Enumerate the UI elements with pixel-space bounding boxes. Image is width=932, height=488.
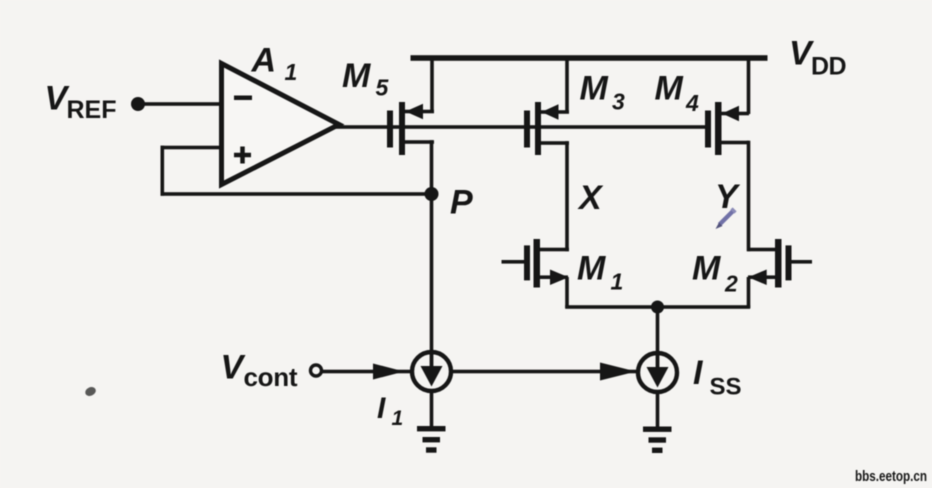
svg-text:X: X	[577, 179, 604, 217]
svg-text:M: M	[655, 70, 684, 108]
svg-text:REF: REF	[67, 96, 117, 124]
transistor Q M2 nmos	[747, 239, 812, 308]
label VDD	[789, 35, 846, 81]
label VREF	[45, 80, 117, 125]
svg-text:A: A	[251, 42, 277, 80]
op-amp U1 A1	[222, 64, 340, 185]
svg-text:bbs.eetop.cn: bbs.eetop.cn	[855, 468, 927, 485]
svg-text:M: M	[577, 250, 606, 288]
wire feedback vertical	[161, 146, 165, 196]
svg-text:1: 1	[611, 269, 624, 295]
label Vcont	[221, 349, 298, 393]
svg-text:I: I	[377, 392, 386, 425]
svg-text:M: M	[342, 57, 371, 95]
wire I1 to ground	[430, 391, 434, 429]
label M2	[692, 250, 738, 297]
terminal open circle Vcont	[311, 365, 322, 376]
transistor Q M4 pmos	[705, 58, 750, 155]
svg-text:Y: Y	[715, 178, 741, 216]
wire M5 drain to node P to I1	[430, 140, 434, 351]
wire feedback plus-input stub	[161, 146, 222, 150]
label M4	[655, 70, 700, 117]
wire I1 to ISS with arrowhead	[452, 363, 637, 381]
svg-text:I: I	[693, 354, 704, 392]
ground below I1	[417, 426, 446, 453]
svg-text:M: M	[692, 250, 721, 288]
wire tail to ISS	[656, 307, 660, 353]
label M3	[580, 70, 626, 115]
svg-text:DD: DD	[811, 53, 846, 81]
wire Vcont to I1 with arrowhead	[321, 364, 411, 380]
node tail junction dot	[651, 301, 664, 314]
speck artifact	[84, 385, 98, 397]
label I1	[377, 392, 403, 430]
transistor Q M5 pmos	[387, 58, 434, 155]
label M1	[577, 250, 623, 295]
power rail VDD	[411, 55, 768, 61]
wire ISS to ground	[656, 392, 660, 429]
wire op-amp output gate bus to M5 M3 M4 gates	[336, 125, 706, 129]
svg-text:5: 5	[376, 75, 390, 101]
current source I1	[412, 352, 451, 391]
label M5	[342, 57, 390, 101]
transistor Q M3 pmos	[524, 58, 569, 155]
wire feedback horizontal to node P	[161, 192, 432, 196]
ground below ISS	[643, 427, 672, 454]
svg-text:cont: cont	[244, 362, 298, 392]
wire node Y vertical M4 drain to M2 drain	[747, 141, 751, 252]
label A1	[251, 42, 298, 86]
svg-text:1: 1	[285, 59, 298, 85]
terminal dot VREF	[131, 97, 145, 111]
svg-text:3: 3	[612, 89, 625, 115]
current source ISS	[638, 353, 677, 392]
wire VREF to op-amp inverting input	[138, 102, 222, 106]
svg-text:4: 4	[685, 90, 699, 116]
svg-text:1: 1	[392, 407, 404, 430]
svg-text:2: 2	[724, 271, 738, 297]
transistor Q M1 nmos	[502, 239, 570, 308]
svg-text:SS: SS	[710, 374, 742, 401]
wire tail M1 M2 sources	[565, 305, 750, 309]
svg-text:M: M	[580, 70, 609, 108]
svg-text:P: P	[450, 184, 473, 222]
wire node X vertical M3 drain to M1 drain	[565, 141, 569, 251]
pen mark artifact	[716, 209, 736, 230]
label ISS	[693, 354, 742, 401]
node P junction dot	[425, 187, 439, 201]
